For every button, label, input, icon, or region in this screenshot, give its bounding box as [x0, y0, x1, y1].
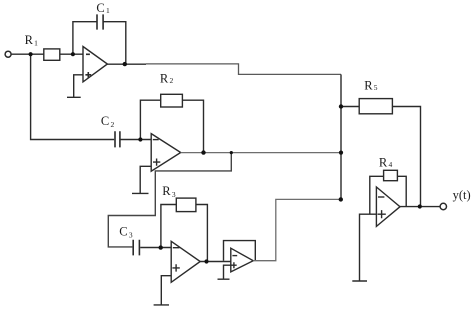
svg-text:y(t): y(t) — [453, 188, 471, 202]
